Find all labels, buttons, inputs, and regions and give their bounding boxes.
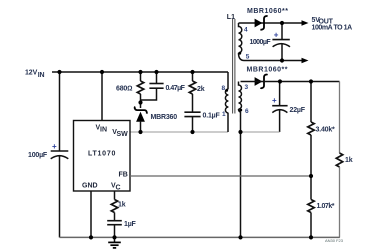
junction: VSW rail / MBR360 anode [138,130,142,134]
svg-text:100µF: 100µF [28,152,48,159]
resistor 3.40k [308,82,335,177]
svg-text:IN: IN [100,127,107,134]
wire right branch [339,82,341,154]
resistor 2k [189,72,204,112]
svg-text:L1: L1 [227,14,235,21]
wire top output line [239,22,303,24]
junction: bottom rail / pin6 return [238,235,242,239]
svg-text:SW: SW [117,131,129,138]
wire primary top drop [227,72,229,89]
transformer secondary top winding pins 4-5 [238,23,249,61]
output arrow top [302,20,309,25]
output arrow return [302,58,309,63]
svg-text:1k: 1k [345,157,353,164]
junction: top rail / VIN pin [100,70,104,74]
resistor 1k (right) [336,153,352,167]
svg-text:1µF: 1µF [124,221,137,228]
junction: pin6 return / 22uF bottom [238,130,242,134]
junction: top rail / 2k [190,70,194,74]
transformer L1 primary winding pins 8-1 [222,85,229,132]
junction: bottom rail / ground symbol [112,235,116,239]
diode MBR360 [135,103,178,133]
svg-text:1.07k*: 1.07k* [317,203,335,210]
wire right branch lower [339,167,341,237]
junction: 5V output / 1000uF top [280,21,284,25]
wire FB line [130,175,312,177]
svg-text:1k: 1k [118,202,126,209]
junction: bottom rail / 1.07k bottom [309,235,313,239]
transformer core [232,19,234,114]
capacitor 22uF [272,82,306,133]
wire pin6 down to bottom rail [240,111,242,237]
svg-text:100mA TO 1A: 100mA TO 1A [312,24,353,31]
svg-text:3.40k*: 3.40k* [316,127,336,134]
svg-text:GND: GND [82,183,98,190]
svg-text:+: + [52,142,57,151]
capacitor 0.47uF [141,72,186,100]
svg-text:680Ω: 680Ω [116,86,132,93]
svg-text:5: 5 [246,54,250,61]
svg-text:1: 1 [222,111,226,118]
svg-text:1000µF: 1000µF [250,39,272,46]
junction: VSW rail / 0.1uF [190,130,194,134]
junction: top rail / 0.47uF [154,70,158,74]
junction: FB node 3.40k/1.07k [309,174,313,178]
svg-text:2k: 2k [197,86,205,93]
svg-text:+: + [272,96,277,105]
diode MBR1060 (top) [247,8,288,30]
wire 22uF return link [241,131,280,133]
wire 100uF to bottom rail [59,156,61,238]
svg-text:4: 4 [244,27,248,34]
capacitor 1uF [107,221,136,238]
wire lower secondary output line [241,81,340,83]
svg-text:12V: 12V [25,70,38,77]
resistor 1k (Vc) [111,191,125,221]
IC U1 LT1070 regulator [74,121,131,192]
svg-text:0.47µF: 0.47µF [166,85,186,92]
wire top rail [52,71,228,73]
svg-text:3: 3 [245,84,249,91]
svg-text:FB: FB [119,172,128,179]
resistor 680ohm [116,72,144,103]
capacitor 0.1uF [184,112,220,132]
junction: output return / 1000uF bottom [280,58,284,62]
wire top return line [244,60,303,62]
svg-text:LT1070: LT1070 [88,151,116,158]
ground [108,237,121,248]
wire VSW rail [130,131,228,133]
wire GND pin down [90,191,92,237]
junction: snubber node 680/0.47uF/MBR360 cathode [138,100,142,104]
junction: lower secondary output / 22uF top [278,79,282,83]
resistor 1.07k [308,176,335,237]
diode MBR1060 (lower) [247,66,288,88]
node 5VOUT label [312,17,353,32]
junction: bottom rail / GND pin [89,235,93,239]
svg-text:MBR360: MBR360 [151,114,178,121]
svg-text:MBR1060**: MBR1060** [247,8,288,15]
svg-text:IN: IN [38,72,45,79]
svg-text:6: 6 [245,108,249,115]
node 12VIN label [25,70,45,79]
svg-text:0.1µF: 0.1µF [203,113,221,120]
svg-text:22µF: 22µF [290,107,306,114]
svg-text:+: + [274,31,279,40]
junction: top rail / 100uF branch [57,70,61,74]
svg-text:MBR1060**: MBR1060** [247,66,288,73]
junction: lower secondary output / 3.40k top [309,79,313,83]
junction: top rail / 680 ohm [138,70,142,74]
transformer secondary lower winding pins 3-6 [239,82,250,116]
svg-text:C: C [116,185,121,192]
capacitor 1000uF [250,23,291,61]
svg-text:AN30 F23: AN30 F23 [325,238,344,243]
capacitor 100uF [28,142,68,159]
wire VIN drop [101,72,103,121]
svg-text:8: 8 [222,85,226,92]
wire bottom rail [60,236,340,238]
wire left branch down to 100uF [59,72,61,151]
